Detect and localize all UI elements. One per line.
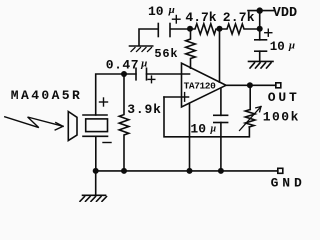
C1 plus sign [173,16,181,24]
feedback wire left [164,97,249,137]
op-amp plus input wire [164,96,189,98]
ground G2 [249,61,274,68]
ground G3 stem [95,171,97,195]
output wire [226,84,276,86]
wire VDD stub [259,11,261,29]
capacitor C4 10u stem top [220,88,222,115]
transducer bottom stem [95,136,97,171]
resistor R4 3.9k [119,74,129,171]
svg-text:OUT: OUT [268,90,300,105]
wave arrow main [5,117,63,130]
svg-text:µ: µ [168,4,175,16]
svg-text:10: 10 [148,4,164,19]
wire C1 to node A [171,28,190,30]
resistor R3 56k [186,29,196,68]
capacitor C4 plates [214,114,228,116]
node B dot [217,26,223,32]
node VDD dot [257,7,263,13]
node E dot [93,168,99,174]
svg-text:VDD: VDD [273,6,297,21]
op-amp plus marker [184,93,186,102]
node A dot [187,26,193,32]
wire node OUT down to pot [249,85,251,109]
wire C2 to op-amp inverting input [147,73,190,75]
C5 plus sign [265,29,272,36]
bottom ground rail [96,170,278,172]
svg-text:MA40A5R: MA40A5R [11,88,82,103]
resistor R2 2.7k [220,24,260,34]
transducer B1 top plate [83,114,107,116]
svg-text:10: 10 [270,40,285,54]
transducer minus sign [103,142,111,144]
node D dot [121,71,127,77]
node H dot [218,168,224,174]
node G dot [187,168,193,174]
C2 plus sign [148,76,155,83]
transducer bottom plate [83,135,108,137]
wire node B to op-amp top [219,29,221,82]
OUT terminal square [276,83,281,88]
svg-text:GND: GND [271,175,303,190]
ground G1 [130,46,153,52]
speaker horn [68,112,77,141]
svg-text:56k: 56k [154,47,178,61]
wire top row C1 left lead [139,29,158,46]
svg-text:3.9k: 3.9k [127,102,161,117]
wire VDD rail [248,10,274,12]
svg-text:µ: µ [209,124,216,135]
op-amp U1 TA7120 triangle [182,63,227,107]
svg-text:100k: 100k [263,110,300,125]
svg-text:4.7k: 4.7k [185,10,216,25]
ground G3 [80,195,107,201]
svg-text:TA7120: TA7120 [184,81,217,92]
capacitor C5 10u plates [259,29,261,40]
capacitor C2 0.47u plates [135,68,137,80]
node F dot [121,168,127,174]
potentiometer VR1 100k zigzag [245,110,255,128]
svg-text:µ: µ [140,58,147,70]
transducer plus sign [100,98,108,106]
resistor R1 4.7k [190,24,220,34]
GND terminal square [278,168,283,173]
wire input row [96,74,136,115]
transducer crystal box [86,119,108,132]
op-amp ground pin wire [189,103,191,171]
C4 stem bottom [220,123,222,172]
capacitor C1 10u plates [157,24,159,37]
svg-text:10: 10 [190,121,206,136]
VR1 arrow [240,107,262,131]
node OUT dot [247,82,253,88]
svg-text:2.7k: 2.7k [223,10,255,25]
svg-text:µ: µ [288,39,295,51]
node C dot [257,26,263,32]
svg-text:0.47: 0.47 [106,57,139,72]
